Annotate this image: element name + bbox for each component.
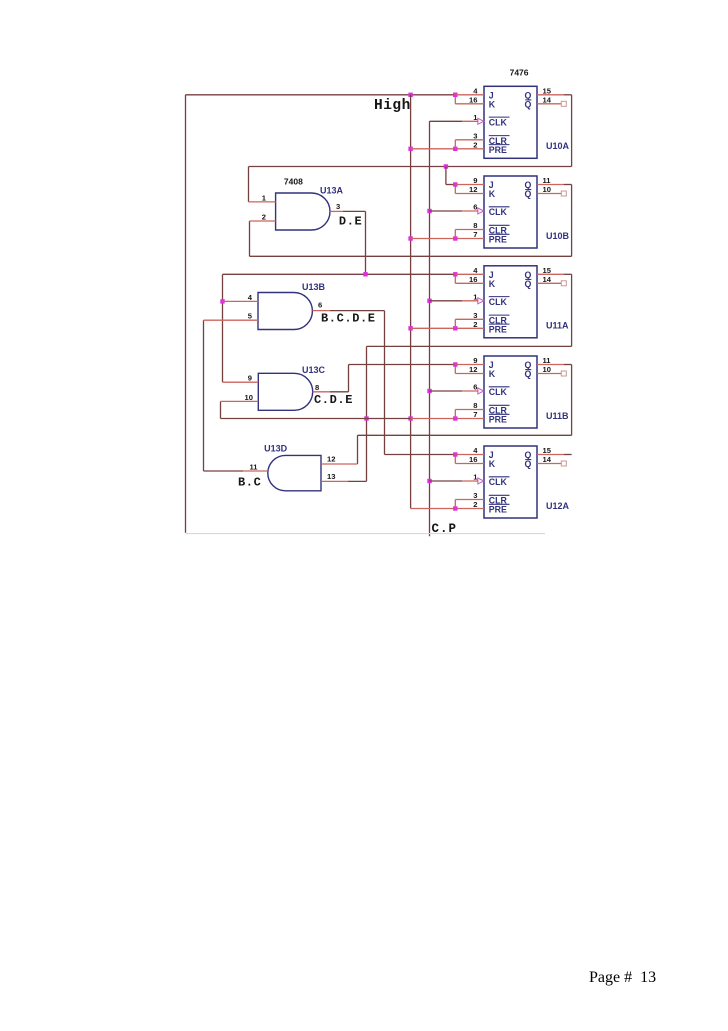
U11A CLK edge-trigger marker	[478, 298, 484, 304]
U11B CLR branch wire	[454, 410, 456, 419]
svg-text:10: 10	[245, 393, 253, 402]
U10A PRE input wire	[411, 148, 456, 150]
junction on U10A PRE input	[453, 147, 457, 151]
svg-text:6: 6	[318, 301, 322, 310]
wire: U10A Q feedback vertical (right)	[571, 95, 573, 167]
U13D pin 12 input stub	[321, 463, 358, 465]
svg-text:4: 4	[473, 446, 478, 455]
U10A J input stub	[455, 94, 484, 96]
U13C pin 10 input stub	[221, 400, 259, 402]
U11B PRE input wire	[411, 418, 456, 420]
svg-text:U12A: U12A	[546, 501, 570, 511]
JK flip-flop U10B body	[484, 176, 537, 248]
wire: High vertical bus	[410, 95, 412, 509]
U10B PRE input wire	[411, 238, 456, 240]
svg-text:PRE: PRE	[489, 415, 507, 425]
svg-text:11: 11	[249, 462, 258, 471]
wire: D.E horizontal to U11A J	[223, 273, 456, 275]
U13B pin 4 input stub	[223, 300, 259, 302]
svg-text:2: 2	[473, 500, 477, 509]
AND gate U13A body	[276, 193, 330, 230]
svg-text:PRE: PRE	[489, 325, 507, 335]
U11A CLR branch wire	[454, 319, 456, 328]
U10B CLK input wire	[430, 210, 463, 212]
wire: B.C.D.E horizontal to U12A J	[385, 454, 456, 456]
wire: U13C pin 10 riser	[220, 401, 222, 418]
U10A CLR branch wire	[454, 140, 456, 149]
svg-text:High: High	[374, 98, 411, 114]
svg-text:10: 10	[543, 365, 551, 374]
svg-text:U13C: U13C	[302, 365, 326, 375]
U11A Q-bar open terminal square	[561, 281, 566, 286]
U12A K input branch wire	[454, 455, 456, 464]
junction: C.P bus to U11A CLK	[427, 299, 431, 303]
wire: QC vertical down to U13D pin 13	[366, 346, 368, 481]
U11B Q output wire	[537, 364, 564, 366]
AND gate U13C body	[258, 373, 312, 410]
U10B Q-bar output wire	[537, 193, 561, 195]
wire: B.C horizontal to U13D output	[204, 470, 244, 472]
U12A CLK input wire	[430, 480, 463, 482]
svg-text:9: 9	[473, 176, 477, 185]
svg-text:6: 6	[473, 383, 477, 392]
U13B pin 6 output stub	[312, 310, 330, 312]
U10A CLK edge-trigger marker	[478, 118, 484, 124]
U10B CLR branch wire	[454, 230, 456, 239]
U12A Q-bar output wire	[537, 463, 561, 465]
U10B K input branch wire	[454, 185, 456, 194]
U13A pin 3 output stub	[330, 210, 343, 212]
svg-text:11: 11	[543, 176, 552, 185]
svg-text:K: K	[489, 369, 496, 379]
wire: drop to U10B J	[445, 167, 447, 185]
svg-text:7: 7	[473, 230, 477, 239]
U11B Q-bar output wire	[537, 373, 561, 375]
junction: High bus to U11A PRE	[408, 326, 412, 330]
svg-text:Q: Q	[524, 459, 531, 469]
U10A Q output wire	[537, 94, 564, 96]
svg-text:12: 12	[469, 365, 477, 374]
junction: C.P bus to U10B CLK	[427, 209, 431, 213]
svg-text:U11A: U11A	[546, 321, 569, 331]
AND gate U13B body	[258, 293, 312, 330]
wire: U13A pin 2 riser	[249, 221, 251, 256]
wire: row-1 down to U13A pin 1	[248, 167, 250, 202]
wire: U11B Q feedback vertical (right)	[571, 365, 573, 436]
U11A K input branch wire	[454, 274, 456, 283]
wire: U13A output D.E run	[343, 210, 366, 212]
svg-text:3: 3	[473, 131, 477, 140]
svg-text:U11B: U11B	[546, 411, 569, 421]
wire: drop to U13D pin 12	[357, 435, 359, 464]
svg-text:3: 3	[473, 491, 477, 500]
U13B pin 5 input stub	[204, 319, 259, 321]
U12A CLK edge-trigger marker	[478, 478, 484, 484]
wire: U13C pin 10 loop / U11B PRE line	[221, 418, 411, 420]
svg-text:16: 16	[469, 95, 477, 104]
svg-text:12: 12	[469, 185, 477, 194]
junction: C.P bus to U12A CLK	[427, 479, 431, 483]
svg-text:15: 15	[543, 86, 552, 95]
svg-text:14: 14	[543, 95, 552, 104]
svg-text:8: 8	[473, 401, 477, 410]
wire: U13C output C.D.E run	[330, 391, 349, 393]
junction on U12A J input	[453, 452, 457, 456]
svg-text:Q: Q	[524, 99, 531, 109]
svg-text:PRE: PRE	[489, 235, 507, 245]
svg-text:K: K	[489, 459, 496, 469]
U12A J input stub	[455, 454, 484, 456]
svg-text:U10B: U10B	[546, 231, 570, 241]
wire: C.P clock bus vertical	[429, 121, 431, 536]
junction: row-1 to U10B J drop	[444, 164, 448, 168]
junction: QC vertical to U13C pin 10 line	[364, 416, 368, 420]
U11B CLK input wire	[430, 390, 463, 392]
U13A pin 2 input stub	[250, 220, 276, 222]
junction: U10A K branch on High wire	[453, 93, 457, 97]
U11B CLK edge-trigger marker	[478, 388, 484, 394]
wire: B.C.D.E vertical drop	[384, 311, 386, 455]
svg-text:13: 13	[327, 472, 335, 481]
wire: row-5 horizontal (QB2 net)	[358, 434, 572, 436]
svg-text:6: 6	[473, 203, 477, 212]
U11A CLK input wire	[430, 300, 463, 302]
svg-text:PRE: PRE	[489, 505, 507, 515]
junction: High bus top	[408, 93, 412, 97]
U10B Q-bar open terminal square	[561, 191, 566, 196]
wire: U13B pin 5 riser (B.C net)	[203, 320, 205, 471]
svg-text:14: 14	[543, 275, 552, 284]
U11A J input stub	[455, 273, 484, 275]
svg-text:4: 4	[473, 266, 478, 275]
wire: left page loop vertical	[185, 95, 187, 533]
junction: C.P bus to U11B CLK	[427, 389, 431, 393]
wire: U10B Q feedback vertical (right)	[571, 185, 573, 257]
JK flip-flop U11A body	[484, 266, 537, 338]
JK flip-flop U10A body	[484, 86, 537, 158]
svg-text:2: 2	[473, 320, 477, 329]
wire: D.E vertical drop	[365, 211, 367, 274]
svg-text:Q: Q	[524, 369, 531, 379]
U10A Q-bar output wire	[537, 103, 561, 105]
junction on U10B PRE input	[453, 236, 457, 240]
svg-text:9: 9	[473, 356, 477, 365]
svg-text:16: 16	[469, 455, 477, 464]
U10B Q output wire	[537, 184, 564, 186]
svg-text:10: 10	[543, 185, 551, 194]
svg-text:5: 5	[248, 312, 253, 321]
U10A K input branch wire	[454, 95, 456, 104]
junction: High bus to U10B PRE	[408, 236, 412, 240]
svg-text:7: 7	[473, 410, 477, 419]
wire: C.D.E horizontal to U11B J	[349, 364, 456, 366]
svg-text:D.E: D.E	[339, 214, 362, 228]
svg-text:4: 4	[473, 86, 478, 95]
svg-text:B.C: B.C	[238, 476, 261, 490]
junction on U10B J input	[453, 182, 457, 186]
svg-text:U13B: U13B	[302, 282, 326, 292]
svg-text:3: 3	[473, 311, 477, 320]
junction: D.E drop joins horizontal	[363, 272, 367, 276]
svg-text:3: 3	[336, 202, 340, 211]
wire: D.E left riser down to U13C pin 9	[222, 274, 224, 382]
U12A Q output wire	[537, 454, 564, 456]
AND gate U13D body	[268, 455, 321, 490]
junction: D.E riser to U13B pin 4	[220, 299, 224, 303]
JK flip-flop U12A body	[484, 446, 537, 518]
svg-text:4: 4	[248, 293, 253, 302]
svg-text:7408: 7408	[284, 177, 303, 187]
junction: High bus to U10A PRE	[408, 147, 412, 151]
junction on U12A PRE input	[453, 506, 457, 510]
junction on U11A J input	[453, 272, 457, 276]
svg-text:16: 16	[469, 275, 477, 284]
junction on U11B PRE input	[453, 416, 457, 420]
U11B K input branch wire	[454, 365, 456, 374]
U10B J input stub	[455, 184, 484, 186]
U11A Q-bar output wire	[537, 282, 561, 284]
svg-text:14: 14	[543, 455, 552, 464]
U10A CLK input wire	[430, 120, 463, 122]
svg-text:9: 9	[248, 374, 252, 383]
svg-text:1: 1	[262, 193, 267, 202]
svg-text:2: 2	[473, 140, 477, 149]
U10B CLK edge-trigger marker	[478, 208, 484, 214]
screenshot bottom edge line	[186, 533, 546, 535]
svg-text:U13A: U13A	[320, 186, 344, 196]
U13D pin 13 input stub	[321, 480, 348, 482]
U11A PRE input wire	[411, 327, 456, 329]
svg-text:8: 8	[473, 221, 477, 230]
svg-text:CLK: CLK	[489, 477, 508, 487]
junction: High bus to U11B PRE	[408, 416, 412, 420]
wire: row-2 horizontal (QB net)	[250, 255, 572, 257]
junction on U10A J input	[453, 93, 457, 97]
svg-text:Q: Q	[524, 189, 531, 199]
wire: High net horizontal run to U10A J	[186, 94, 456, 96]
svg-text:CLK: CLK	[489, 118, 508, 128]
svg-text:Q: Q	[524, 279, 531, 289]
U13D pin 11 output stub	[243, 470, 268, 472]
svg-text:K: K	[489, 279, 496, 289]
wire: C.D.E riser up	[348, 365, 350, 392]
svg-text:U10A: U10A	[546, 141, 570, 151]
wire: U13B output B.C.D.E run	[330, 310, 385, 312]
U13C pin 8 output stub	[313, 391, 330, 393]
wire: row-1 horizontal (QA net)	[249, 166, 572, 168]
svg-text:B.C.D.E: B.C.D.E	[321, 312, 376, 326]
U10A Q-bar open terminal square	[561, 101, 566, 106]
svg-text:U13D: U13D	[264, 444, 288, 454]
svg-text:PRE: PRE	[489, 145, 507, 155]
svg-text:K: K	[489, 189, 496, 199]
svg-text:2: 2	[262, 212, 266, 221]
wire: U11A Q feedback vertical (right)	[571, 274, 573, 346]
svg-text:15: 15	[543, 446, 552, 455]
svg-text:11: 11	[543, 356, 552, 365]
U12A PRE input wire	[411, 508, 456, 510]
svg-text:12: 12	[327, 455, 335, 464]
JK flip-flop U11B body	[484, 356, 537, 428]
svg-text:15: 15	[543, 266, 552, 275]
svg-text:8: 8	[315, 383, 319, 392]
page number footer	[589, 969, 656, 987]
U12A CLR branch wire	[454, 500, 456, 509]
svg-text:7476: 7476	[510, 68, 529, 78]
svg-text:CLK: CLK	[489, 297, 508, 307]
svg-text:CLK: CLK	[489, 207, 508, 217]
U11A Q output wire	[537, 273, 564, 275]
svg-text:C.D.E: C.D.E	[314, 393, 353, 407]
U11B Q-bar open terminal square	[561, 371, 566, 376]
wire: row-3 horizontal (QC net)	[367, 345, 572, 347]
U11B J input stub	[455, 364, 484, 366]
U13C pin 9 input stub	[223, 381, 259, 383]
svg-text:K: K	[489, 99, 496, 109]
svg-text:CLK: CLK	[489, 387, 508, 397]
junction on U11A PRE input	[453, 326, 457, 330]
junction on U11B J input	[453, 362, 457, 366]
U12A Q-bar open terminal square	[561, 461, 566, 466]
U13A pin 1 input stub	[249, 201, 276, 203]
